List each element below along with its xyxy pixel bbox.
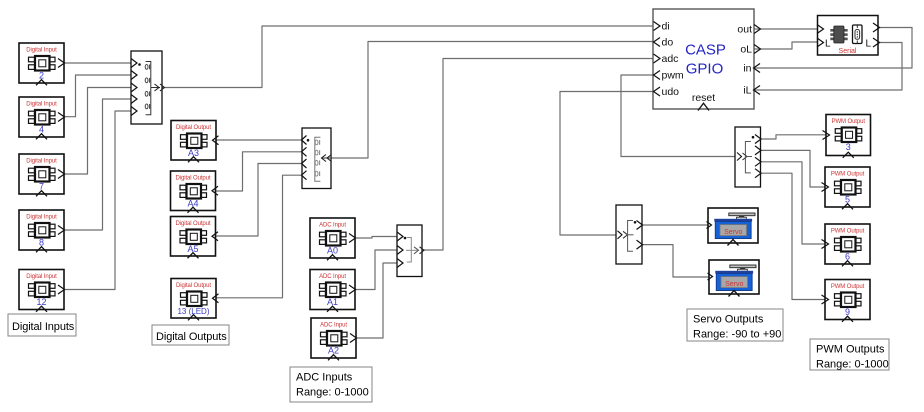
svg-text:Serial: Serial — [839, 48, 857, 55]
wire DigitalInput4 to mux M1 in2 — [64, 75, 131, 117]
svg-text:di: di — [662, 21, 670, 33]
wire Serial out1 to CASP in — [754, 28, 912, 69]
wire demux D2 out2 to PWMOutput 5 — [761, 150, 826, 187]
svg-text:Digital Input: Digital Input — [26, 274, 57, 280]
label ADC Inputs — [290, 367, 372, 402]
Serial pin out2 — [873, 38, 880, 47]
svg-text:Digital Output: Digital Output — [176, 283, 211, 289]
demux D3 servo outputs — [616, 205, 643, 264]
svg-text:3: 3 — [846, 142, 851, 152]
wire demux D2 out4 to PWMOutput 9 — [761, 173, 826, 299]
wire mux M2 to CASP adc — [422, 59, 653, 251]
svg-text:Digital Output: Digital Output — [176, 221, 211, 227]
CASP pin pwm — [654, 71, 661, 80]
svg-text:PWM Output: PWM Output — [832, 119, 866, 125]
ADC input block A1 — [310, 270, 356, 312]
svg-text:Digital Output: Digital Output — [176, 176, 211, 182]
svg-text:GPIO: GPIO — [686, 61, 724, 78]
svg-text:L: L — [825, 39, 831, 50]
svg-text:Servo: Servo — [725, 281, 743, 288]
digital input block 8 — [19, 210, 65, 252]
label PWM Outputs — [810, 339, 889, 371]
wire demux D3 out2 to Servo2 — [642, 245, 709, 277]
wire CASP oL to Serial in2 — [754, 42, 818, 49]
svg-text:Digital Input: Digital Input — [26, 102, 57, 108]
wire DigitalInput2 to mux M1 in1 — [65, 62, 131, 64]
wire ADCInput A2 to mux M2 in3 — [356, 263, 398, 338]
svg-text:PWM Outputs: PWM Outputs — [816, 344, 885, 356]
wire CASP pwm to demux D2 — [621, 75, 735, 157]
Serial pin out1 — [873, 23, 880, 32]
Serial pin in2 — [817, 38, 824, 47]
demux D1 digital outputs — [302, 128, 332, 189]
svg-text:Digital Inputs: Digital Inputs — [12, 321, 75, 333]
CASP GPIO block U1 — [653, 9, 754, 109]
wire demux D1 out2 to DigitalOutput A4 — [216, 152, 303, 191]
wire ADCInput A0 to mux M2 in1 — [355, 237, 397, 239]
CASP pin di — [654, 22, 661, 31]
svg-text:iL: iL — [743, 85, 751, 97]
svg-text:PWM Output: PWM Output — [831, 284, 865, 290]
digital input block 7 — [19, 154, 65, 196]
svg-text:Digital Outputs: Digital Outputs — [156, 331, 227, 343]
PWM output block 5 — [822, 167, 871, 209]
svg-text:Digital Input: Digital Input — [26, 215, 57, 221]
svg-text:Digital Output: Digital Output — [176, 125, 211, 131]
wire demux D1 out3 to DigitalOutput A5 — [216, 164, 303, 237]
svg-text:ADC Input: ADC Input — [320, 323, 347, 329]
CASP pin iL — [754, 86, 761, 95]
digital output block A5 — [171, 217, 219, 259]
CASP pin out — [754, 25, 761, 34]
svg-text:Range: 0-1000: Range: 0-1000 — [296, 387, 369, 399]
digital output block 13 LED — [171, 279, 219, 321]
label Servo Outputs — [687, 309, 783, 341]
CASP pin adc — [654, 54, 661, 63]
svg-text:Servo Outputs: Servo Outputs — [693, 314, 764, 326]
svg-text:Range: -90 to +90: Range: -90 to +90 — [693, 329, 781, 341]
svg-text:do: do — [662, 37, 674, 49]
svg-text:Range: 0-1000: Range: 0-1000 — [816, 359, 889, 371]
wire DigitalInput8 to mux M1 in4 — [65, 99, 131, 230]
wire ADCInput A1 to mux M2 in2 — [355, 250, 397, 290]
ADC input block A0 — [310, 218, 356, 260]
wire CASP out to Serial in1 — [754, 28, 818, 30]
svg-text:oL: oL — [740, 44, 752, 56]
digital input block 2 — [19, 43, 65, 85]
Serial block — [818, 16, 879, 56]
demux D2 PWM outputs — [735, 127, 761, 187]
digital input block 12 — [19, 270, 65, 312]
label Digital Inputs — [8, 314, 76, 336]
CASP pin oL — [754, 45, 761, 54]
digital input block 4 — [19, 97, 65, 139]
CASP pin do — [654, 38, 661, 47]
digital output block A4 — [171, 171, 219, 213]
wire demux D3 out1 to Servo1 — [642, 224, 708, 226]
CASP pin in — [754, 64, 761, 73]
svg-text:PWM Output: PWM Output — [831, 229, 865, 235]
ADC input block A2 — [311, 318, 357, 360]
CASP pin udo — [654, 87, 661, 96]
digital output block A3 — [171, 121, 219, 163]
wire demux D2 out3 to PWMOutput 6 — [761, 162, 826, 244]
wire CASP udo to demux D3 — [560, 92, 653, 236]
wire demux D1 out1 to DigitalOutput A3 — [217, 139, 303, 141]
svg-text:pwm: pwm — [662, 70, 684, 82]
wire CASP do to demux D1 — [331, 42, 653, 159]
label Digital Outputs — [152, 325, 229, 345]
servo output block 1 — [707, 208, 759, 246]
svg-text:Digital Input: Digital Input — [26, 48, 57, 54]
servo output block 2 — [708, 260, 760, 297]
PWM output block 6 — [822, 224, 871, 266]
wire demux D1 out4 to DigitalOutput 13 — [217, 175, 303, 298]
svg-text:CASP: CASP — [685, 42, 726, 59]
wire mux M1 to CASP di — [162, 26, 653, 88]
svg-text:out: out — [737, 24, 752, 36]
wire DigitalInput12 to mux M1 in5 — [65, 111, 131, 290]
PWM output block 9 — [822, 280, 871, 322]
svg-text:in: in — [743, 63, 751, 75]
wire Serial out2 to CASP iL — [754, 43, 902, 91]
svg-text:PWM Output: PWM Output — [831, 172, 865, 178]
svg-text:adc: adc — [662, 53, 679, 65]
svg-text:ADC Input: ADC Input — [319, 274, 346, 280]
mux M1 digital inputs — [131, 51, 165, 124]
mux M2 ADC inputs — [397, 225, 424, 277]
svg-text:Servo: Servo — [724, 229, 742, 236]
svg-text:L: L — [865, 39, 871, 50]
wire DigitalInput7 to mux M1 in3 — [64, 88, 131, 175]
svg-text:udo: udo — [662, 86, 680, 98]
Serial pin in1 — [817, 25, 824, 34]
wire demux D2 out1 to PWMOutput 3 — [761, 135, 827, 139]
svg-text:ADC Input: ADC Input — [319, 223, 346, 229]
svg-text:Digital Input: Digital Input — [26, 159, 57, 165]
PWM output block 3 — [823, 115, 871, 158]
svg-text:ADC Inputs: ADC Inputs — [296, 372, 353, 384]
